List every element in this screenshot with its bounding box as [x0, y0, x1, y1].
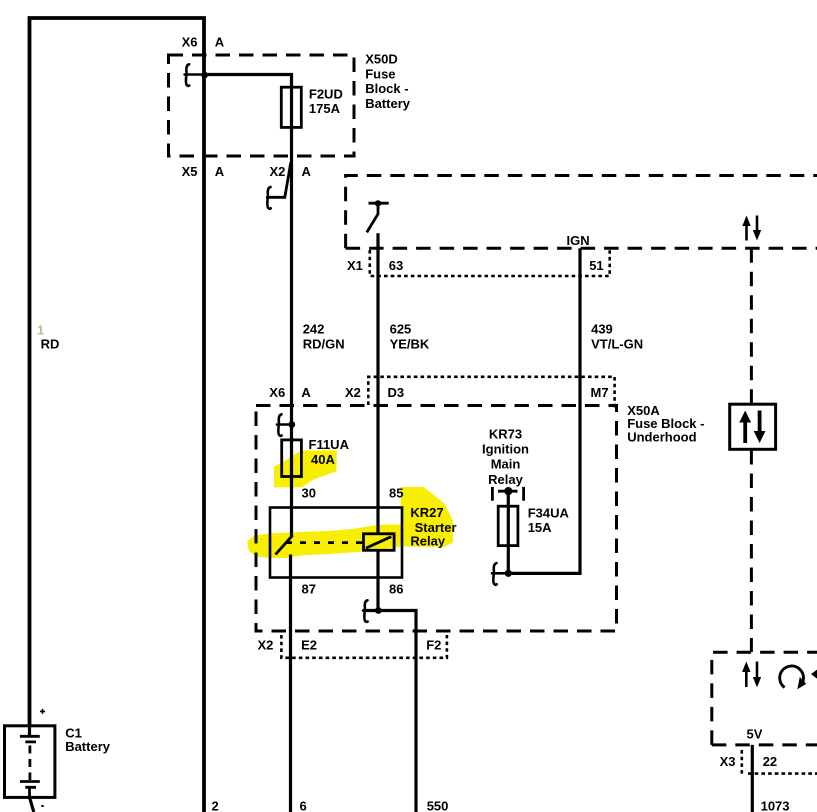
- svg-text:242: 242: [303, 322, 325, 337]
- svg-text:6: 6: [300, 799, 307, 812]
- svg-text:RD: RD: [41, 337, 60, 352]
- svg-text:X2: X2: [270, 164, 286, 179]
- svg-text:X3: X3: [720, 754, 736, 769]
- svg-text:F34UA: F34UA: [528, 505, 570, 520]
- svg-text:X6: X6: [182, 35, 198, 50]
- svg-text:F2: F2: [426, 637, 441, 652]
- svg-text:63: 63: [389, 258, 403, 273]
- svg-text:Relay: Relay: [410, 533, 445, 548]
- svg-text:30: 30: [302, 486, 316, 501]
- svg-text:Fuse: Fuse: [365, 66, 395, 81]
- svg-text:Battery: Battery: [365, 96, 411, 111]
- svg-text:87: 87: [302, 581, 316, 596]
- svg-text:2: 2: [212, 799, 219, 812]
- svg-text:439: 439: [591, 322, 613, 337]
- svg-text:C1: C1: [65, 725, 82, 740]
- svg-text:Ignition: Ignition: [482, 442, 529, 457]
- svg-text:D3: D3: [388, 385, 405, 400]
- svg-text:A: A: [301, 385, 311, 400]
- svg-text:550: 550: [427, 799, 449, 812]
- svg-text:625: 625: [390, 322, 412, 337]
- svg-text:X2: X2: [258, 637, 274, 652]
- svg-text:A: A: [302, 164, 312, 179]
- svg-text:X2: X2: [345, 385, 361, 400]
- svg-text:Main: Main: [491, 457, 521, 472]
- svg-text:VT/L-GN: VT/L-GN: [591, 336, 643, 351]
- svg-text:51: 51: [589, 258, 603, 273]
- svg-text:X1: X1: [347, 258, 363, 273]
- svg-text:M7: M7: [591, 385, 609, 400]
- svg-text:Block -: Block -: [365, 81, 408, 96]
- svg-text:YE/BK: YE/BK: [390, 336, 430, 351]
- svg-text:X50D: X50D: [365, 52, 398, 67]
- svg-text:A: A: [215, 35, 225, 50]
- svg-text:A: A: [215, 164, 225, 179]
- svg-text:40A: 40A: [311, 452, 335, 467]
- svg-text:X6: X6: [269, 385, 285, 400]
- svg-text:1073: 1073: [761, 799, 790, 812]
- svg-text:X5: X5: [182, 164, 198, 179]
- svg-text:KR73: KR73: [489, 427, 522, 442]
- svg-text:1: 1: [37, 323, 44, 338]
- svg-text:Battery: Battery: [65, 739, 111, 754]
- svg-text:85: 85: [389, 486, 403, 501]
- svg-text:22: 22: [763, 754, 777, 769]
- svg-text:86: 86: [389, 581, 403, 596]
- svg-text:F11UA: F11UA: [309, 437, 350, 452]
- svg-text:E2: E2: [301, 637, 317, 652]
- svg-text:KR27: KR27: [410, 505, 443, 520]
- svg-text:RD/GN: RD/GN: [303, 336, 345, 351]
- svg-text:175A: 175A: [309, 101, 341, 116]
- svg-text:15A: 15A: [528, 520, 552, 535]
- svg-text:Underhood: Underhood: [627, 430, 696, 445]
- svg-text:5V: 5V: [747, 726, 763, 741]
- svg-text:Relay: Relay: [488, 472, 523, 487]
- svg-text:IGN: IGN: [567, 233, 590, 248]
- svg-text:F2UD: F2UD: [309, 87, 343, 102]
